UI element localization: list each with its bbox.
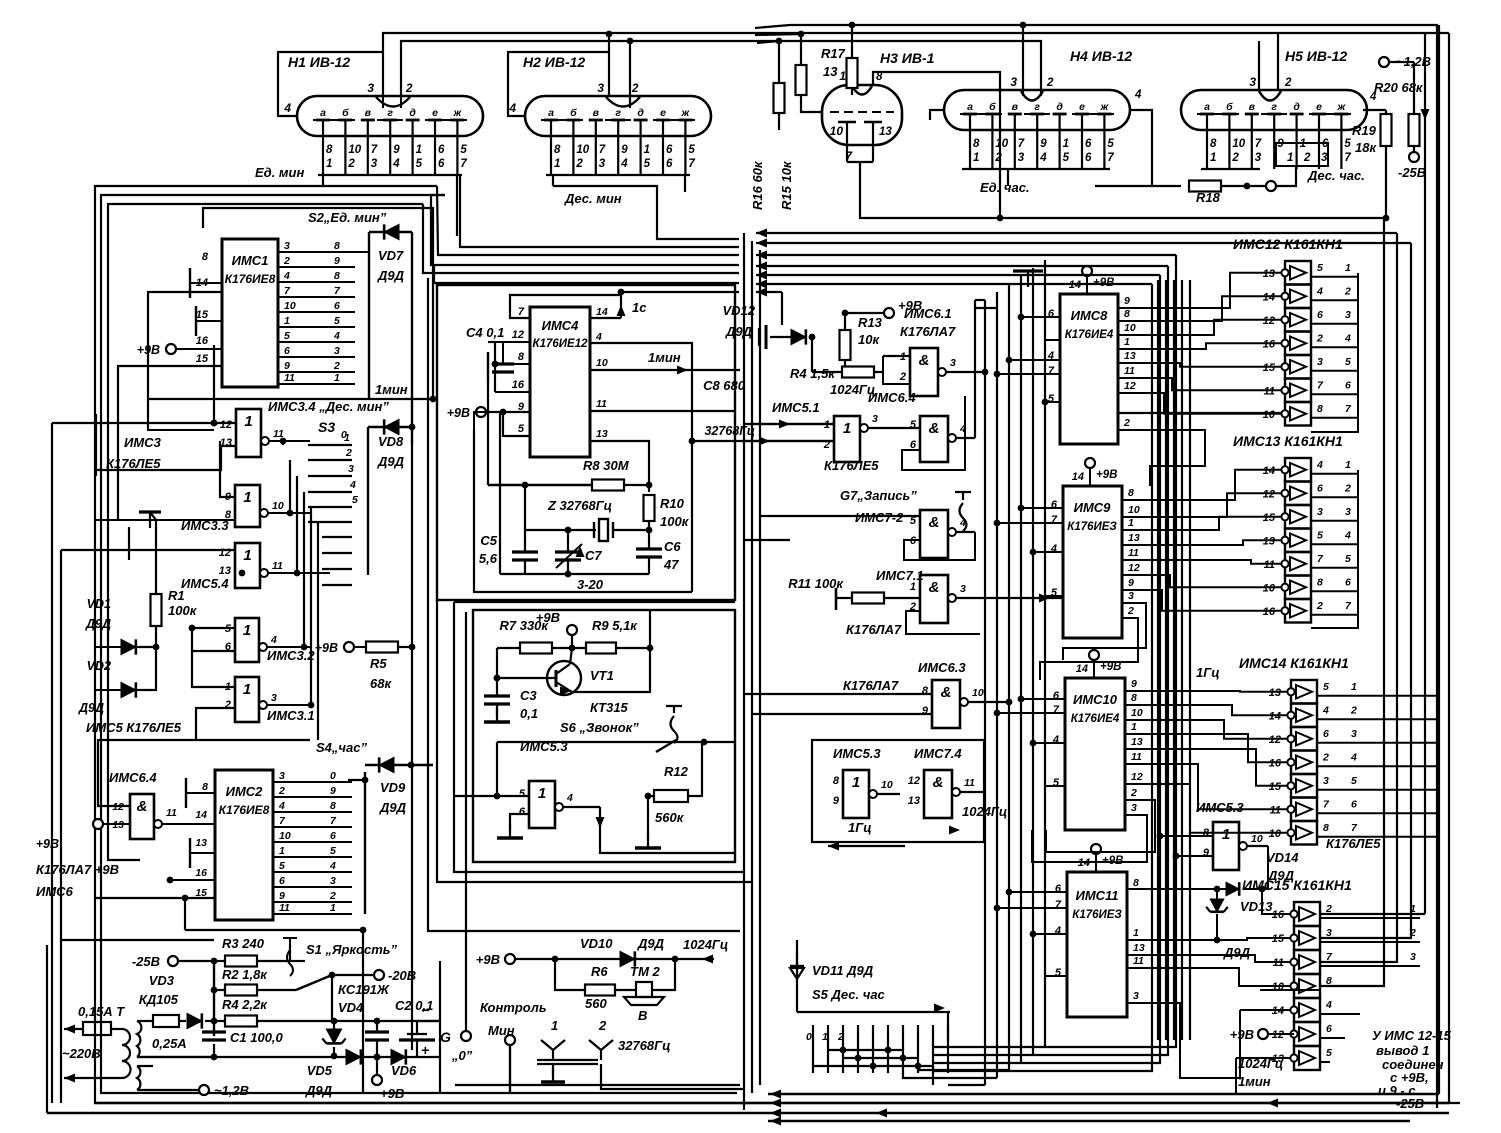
svg-text:3: 3 <box>599 158 606 170</box>
wire IMS9 pin3 pin2 <box>1063 603 1146 660</box>
bus top line from H3 <box>860 180 1384 986</box>
wire IMS8 pin2 <box>1118 430 1205 486</box>
wire H2 pin3 up <box>608 34 610 97</box>
svg-text:3: 3 <box>1133 990 1139 1002</box>
wire right frame bottom <box>1448 33 1450 1103</box>
svg-text:G7„Запись”: G7„Запись” <box>840 488 917 503</box>
svg-text:8: 8 <box>554 144 561 156</box>
svg-text:4: 4 <box>1316 285 1323 297</box>
wire R16 junction <box>757 41 779 43</box>
tube Н4 ИВ-12 <box>944 90 1130 130</box>
tube Н5 ИВ-12 <box>1181 90 1367 130</box>
svg-text:5: 5 <box>334 315 340 327</box>
svg-text:б: б <box>570 107 577 119</box>
svg-text:6: 6 <box>1345 576 1351 588</box>
wires IMS10 to IMS14 <box>1125 690 1287 693</box>
svg-text:R10: R10 <box>660 496 685 511</box>
svg-text:4: 4 <box>329 860 336 872</box>
wire pin5 down <box>474 412 503 430</box>
svg-text:5: 5 <box>1053 777 1060 789</box>
diode VD6 <box>391 1049 406 1064</box>
wire ps box <box>439 961 441 1093</box>
capacitor C4 <box>487 352 489 382</box>
node power rail <box>213 961 215 1036</box>
svg-text:г: г <box>615 107 621 119</box>
wire mid bundle bottoms <box>948 1084 985 1086</box>
svg-text:6: 6 <box>1055 883 1062 895</box>
wire H5 bracket <box>1201 168 1260 170</box>
svg-text:в: в <box>365 107 372 119</box>
wire mid box outer <box>437 285 735 600</box>
svg-text:-25В: -25В <box>132 954 160 969</box>
svg-text:2: 2 <box>575 158 583 170</box>
svg-text:а: а <box>967 101 973 113</box>
svg-text:R13: R13 <box>858 315 883 330</box>
svg-text:7: 7 <box>1107 152 1114 164</box>
svg-text:S6 „Звонок”: S6 „Звонок” <box>560 720 639 735</box>
S3 ladder verticals <box>282 441 284 445</box>
svg-text:3: 3 <box>872 413 878 425</box>
svg-text:8: 8 <box>1124 308 1130 320</box>
svg-text:7: 7 <box>1018 138 1025 150</box>
svg-text:1: 1 <box>822 1031 828 1043</box>
svg-text:9: 9 <box>833 795 840 807</box>
svg-text:1: 1 <box>1210 152 1216 164</box>
wires IMS8 to IMS12 <box>1118 273 1281 308</box>
svg-text:ж: ж <box>1337 101 1347 113</box>
svg-text:VD9: VD9 <box>380 780 406 795</box>
diode VD8 <box>367 427 369 575</box>
svg-text:1: 1 <box>284 315 290 327</box>
svg-text:-20В: -20В <box>388 968 416 983</box>
svg-text:10: 10 <box>830 124 844 138</box>
svg-text:3: 3 <box>1255 152 1262 164</box>
svg-text:R8 30М: R8 30М <box>583 458 630 473</box>
svg-text:7: 7 <box>688 158 695 170</box>
svg-text:2: 2 <box>1303 152 1311 164</box>
svg-text:К176ЛА7: К176ЛА7 <box>843 678 899 693</box>
diode VD11 <box>790 968 804 979</box>
svg-text:R18: R18 <box>1196 190 1221 205</box>
svg-text:8: 8 <box>334 240 340 252</box>
svg-text:11: 11 <box>1124 365 1135 377</box>
resistor R13 <box>884 308 894 318</box>
svg-text:5: 5 <box>330 845 336 857</box>
svg-text:10: 10 <box>995 138 1008 150</box>
svg-text:6: 6 <box>1323 728 1329 740</box>
svg-text:ИМС3.4 „Дес. мин”: ИМС3.4 „Дес. мин” <box>268 399 389 414</box>
svg-text:ИМС13 К161КН1: ИМС13 К161КН1 <box>1233 433 1343 449</box>
svg-text:0: 0 <box>806 1031 812 1043</box>
svg-text:1Гц: 1Гц <box>1196 665 1220 680</box>
svg-text:6: 6 <box>1051 499 1058 511</box>
svg-text:5: 5 <box>1345 553 1351 565</box>
svg-text:1: 1 <box>243 681 251 698</box>
svg-text:5: 5 <box>1055 967 1062 979</box>
svg-text:ж: ж <box>453 107 463 119</box>
svg-text:Ед. мин: Ед. мин <box>255 165 304 180</box>
svg-text:1: 1 <box>644 144 650 156</box>
svg-text:8: 8 <box>202 781 208 793</box>
svg-text:4: 4 <box>959 517 966 529</box>
svg-text:5: 5 <box>1345 356 1351 368</box>
svg-text:ИМС3: ИМС3 <box>124 435 162 450</box>
diode VD5 <box>346 1049 361 1064</box>
svg-text:ИМС5 К176ЛЕ5: ИМС5 К176ЛЕ5 <box>86 720 182 735</box>
ic IMS10 K176IE4 <box>1065 678 1125 830</box>
diode VD7 <box>368 232 370 399</box>
svg-text:7: 7 <box>1255 138 1262 150</box>
svg-text:2: 2 <box>347 158 355 170</box>
svg-text:VD3: VD3 <box>149 973 175 988</box>
svg-text:7: 7 <box>518 306 525 318</box>
svg-text:б: б <box>342 107 349 119</box>
svg-text:7: 7 <box>1053 704 1060 716</box>
wire top bus B <box>401 41 1041 98</box>
svg-text:2: 2 <box>1344 285 1351 297</box>
svg-text:е: е <box>432 107 438 119</box>
svg-text:5: 5 <box>1326 1047 1332 1059</box>
svg-text:К176ИЕ4: К176ИЕ4 <box>1065 329 1114 341</box>
svg-text:8: 8 <box>922 685 929 697</box>
svg-text:5: 5 <box>1317 262 1323 274</box>
svg-text:вывод 1: вывод 1 <box>1376 1043 1429 1058</box>
svg-text:7: 7 <box>371 144 378 156</box>
svg-text:2: 2 <box>631 83 639 95</box>
terminal +9V IMS15 <box>1258 1029 1268 1039</box>
terminal -20V <box>329 972 336 979</box>
svg-text:7: 7 <box>1055 899 1062 911</box>
svg-text:+9В: +9В <box>137 343 160 357</box>
svg-text:9: 9 <box>1203 847 1210 859</box>
wire left long vert 2 <box>60 550 62 940</box>
svg-text:К176ЛА7: К176ЛА7 <box>900 324 956 339</box>
svg-text:68к: 68к <box>370 676 392 691</box>
wire IMS1 pin14 <box>148 292 222 430</box>
svg-text:ТМ 2: ТМ 2 <box>630 964 661 979</box>
wire right edge arrow <box>1424 33 1426 914</box>
svg-text:R19: R19 <box>1352 123 1377 138</box>
svg-text:R15 10к: R15 10к <box>779 160 794 210</box>
svg-text:16: 16 <box>196 335 209 347</box>
svg-text:14: 14 <box>195 809 207 821</box>
svg-text:С4 0,1: С4 0,1 <box>466 325 504 340</box>
svg-text:3: 3 <box>1323 775 1329 787</box>
svg-text:S4„час”: S4„час” <box>316 740 367 755</box>
terminal -25V right <box>1409 152 1419 162</box>
svg-text:4: 4 <box>1134 89 1142 101</box>
svg-text:8: 8 <box>833 775 840 787</box>
svg-text:2: 2 <box>899 371 906 383</box>
tube H3 cathode bars <box>838 121 856 124</box>
wire pin12 to R8 <box>487 382 489 485</box>
svg-text:8: 8 <box>1210 138 1217 150</box>
svg-text:16: 16 <box>195 867 207 879</box>
terminal +9V IMS1 <box>166 344 176 354</box>
svg-text:2: 2 <box>1322 751 1329 763</box>
svg-text:Д9Д: Д9Д <box>379 800 407 815</box>
wire 1439 bottom <box>1438 25 1440 1094</box>
svg-text:Д9Д: Д9Д <box>305 1083 333 1098</box>
svg-text:4: 4 <box>1322 704 1329 716</box>
svg-text:&: & <box>941 684 952 701</box>
svg-text:1: 1 <box>279 845 285 857</box>
svg-text:+9В: +9В <box>1096 469 1117 481</box>
wire H4 pin bracket <box>962 168 1110 170</box>
svg-text:&: & <box>929 514 940 531</box>
transformer secondary 2 <box>137 1066 140 1090</box>
wire H1 pin bracket <box>318 174 462 176</box>
svg-text:R2 1,8к: R2 1,8к <box>222 967 268 982</box>
svg-text:10: 10 <box>279 830 291 842</box>
svg-text:ИМС7-2: ИМС7-2 <box>855 510 904 525</box>
svg-text:5: 5 <box>519 788 526 800</box>
gate IMS3.4 <box>236 409 261 457</box>
svg-text:4: 4 <box>278 800 285 812</box>
svg-text:1: 1 <box>852 774 860 791</box>
svg-text:S2„Ед. мин”: S2„Ед. мин” <box>308 210 387 225</box>
svg-text:1: 1 <box>910 581 916 593</box>
svg-text:12: 12 <box>1131 771 1143 783</box>
svg-text:1: 1 <box>554 158 560 170</box>
wire H1 label box <box>278 52 383 116</box>
wire +9V line <box>567 625 577 635</box>
svg-text:КД105: КД105 <box>139 992 179 1007</box>
wires IMS10 left stubs <box>1021 698 1065 700</box>
svg-text:3: 3 <box>1317 506 1323 518</box>
svg-text:ИМС6.4: ИМС6.4 <box>868 390 916 405</box>
svg-text:2: 2 <box>345 447 352 459</box>
wire mid border B <box>454 602 744 872</box>
svg-text:ИМС5.3: ИМС5.3 <box>1196 800 1244 815</box>
wire bell top <box>497 741 704 743</box>
svg-text:6: 6 <box>666 144 673 156</box>
svg-text:1: 1 <box>1124 336 1130 348</box>
ic IMS1 K176IE8 <box>222 239 278 387</box>
svg-text:&: & <box>929 579 940 596</box>
svg-text:13: 13 <box>596 428 608 440</box>
wire H4 pin4 right <box>1130 110 1152 186</box>
contact bar <box>537 1059 598 1061</box>
svg-text:1: 1 <box>973 152 979 164</box>
svg-text:12: 12 <box>1124 380 1136 392</box>
svg-text:Д9Д: Д9Д <box>725 324 753 339</box>
wire misc vert mid-right <box>1157 280 1159 1040</box>
svg-text:5,6: 5,6 <box>479 551 498 566</box>
svg-text:1: 1 <box>839 69 846 83</box>
svg-text:13: 13 <box>1128 532 1140 544</box>
svg-text:5: 5 <box>518 423 525 435</box>
svg-text:д: д <box>409 107 416 119</box>
svg-text:ИМС5.4: ИМС5.4 <box>181 576 229 591</box>
svg-text:1: 1 <box>416 144 422 156</box>
resistor R5 <box>344 642 354 652</box>
S3 stubs <box>322 536 352 538</box>
terminal ~1,2V top <box>1379 57 1389 67</box>
svg-text:2: 2 <box>994 152 1002 164</box>
svg-text:9: 9 <box>1040 138 1047 150</box>
svg-text:С7: С7 <box>585 548 602 563</box>
svg-text:4: 4 <box>283 101 291 115</box>
wire mid vertical bundle <box>984 300 986 1085</box>
svg-text:5: 5 <box>910 419 917 431</box>
gate IMS3.2 <box>235 618 259 662</box>
svg-text:+9В: +9В <box>476 952 500 967</box>
tbar mid <box>1027 271 1029 287</box>
svg-text:ИМС6.4: ИМС6.4 <box>109 770 157 785</box>
svg-text:3: 3 <box>1010 75 1017 89</box>
terminal -25V left <box>168 956 178 966</box>
svg-text:ИМС11: ИМС11 <box>1075 888 1118 903</box>
svg-text:14: 14 <box>596 306 608 318</box>
svg-text:д: д <box>1293 101 1300 113</box>
svg-text:13: 13 <box>195 837 207 849</box>
svg-text:8: 8 <box>1317 576 1323 588</box>
svg-text:а: а <box>1204 101 1210 113</box>
svg-text:11: 11 <box>1128 547 1139 559</box>
svg-text:1: 1 <box>243 547 251 564</box>
svg-text:4: 4 <box>349 479 356 491</box>
svg-text:3: 3 <box>1018 152 1025 164</box>
svg-text:11: 11 <box>964 777 975 789</box>
svg-text:3: 3 <box>371 158 378 170</box>
wire top bus C <box>755 25 1437 1108</box>
svg-text:1: 1 <box>344 432 350 444</box>
svg-text:2: 2 <box>283 255 290 267</box>
wire bus corner 1 <box>460 175 739 247</box>
svg-text:VT1: VT1 <box>590 668 614 683</box>
svg-text:+9В: +9В <box>380 1086 404 1101</box>
svg-text:1Гц: 1Гц <box>848 820 872 835</box>
wire IMS10 pin2 pin3 <box>1046 800 1155 852</box>
svg-text:К176ЛА7 +9В: К176ЛА7 +9В <box>36 862 119 877</box>
svg-text:9: 9 <box>279 890 285 902</box>
svg-text:4: 4 <box>620 158 628 170</box>
svg-text:11: 11 <box>166 807 177 819</box>
svg-text:Ед. час.: Ед. час. <box>980 180 1030 195</box>
svg-text:КС191Ж: КС191Ж <box>338 982 390 997</box>
svg-text:4: 4 <box>508 101 516 115</box>
svg-text:К176ЛЕ5: К176ЛЕ5 <box>106 456 161 471</box>
svg-text:10: 10 <box>1251 833 1263 845</box>
svg-text:4: 4 <box>1052 734 1059 746</box>
svg-text:4: 4 <box>270 634 277 646</box>
svg-text:&: & <box>919 352 930 369</box>
svg-text:1: 1 <box>326 158 332 170</box>
svg-text:С3: С3 <box>520 688 537 703</box>
svg-text:VD11 Д9Д: VD11 Д9Д <box>812 963 874 978</box>
svg-text:6: 6 <box>1085 138 1092 150</box>
svg-text:ИМС8: ИМС8 <box>1071 308 1109 323</box>
wire mid border D <box>428 278 740 931</box>
ic IMS4 K176IE12 <box>530 307 590 457</box>
svg-text:10: 10 <box>881 779 893 791</box>
svg-text:К176ИЕЗ: К176ИЕЗ <box>1072 909 1122 921</box>
svg-text:9: 9 <box>1124 295 1130 307</box>
diode VD13 <box>1214 886 1221 893</box>
svg-text:9: 9 <box>334 255 340 267</box>
svg-text:2: 2 <box>1344 482 1351 494</box>
svg-text:Д9Д: Д9Д <box>1267 868 1295 883</box>
svg-text:1: 1 <box>1133 927 1139 939</box>
svg-text:VD12: VD12 <box>722 303 755 318</box>
svg-text:R6: R6 <box>591 964 608 979</box>
svg-text:8: 8 <box>1317 403 1323 415</box>
svg-text:Д9Д: Д9Д <box>377 268 405 283</box>
terminal +9V bell <box>505 954 515 964</box>
svg-text:10: 10 <box>1232 138 1245 150</box>
svg-text:3: 3 <box>1345 309 1351 321</box>
svg-text:К176ЛА7: К176ЛА7 <box>846 622 902 637</box>
svg-text:Н5 ИВ-12: Н5 ИВ-12 <box>1285 48 1347 64</box>
transformer secondary 1 <box>137 1021 141 1057</box>
bus bottom mid <box>455 1084 740 1086</box>
wires IMS11 left stubs <box>1009 891 1067 893</box>
svg-text:г: г <box>1034 101 1040 113</box>
svg-text:5: 5 <box>1317 529 1323 541</box>
svg-text:12: 12 <box>512 329 524 341</box>
svg-text:R17: R17 <box>821 46 846 61</box>
svg-text:VD7: VD7 <box>378 248 404 263</box>
svg-text:ИМС14 К161КН1: ИМС14 К161КН1 <box>1239 655 1349 671</box>
svg-text:5: 5 <box>1051 587 1058 599</box>
capacitor C5/C7 stems <box>524 560 526 574</box>
svg-text:100к: 100к <box>660 514 690 529</box>
resistor R18 <box>1095 185 1181 187</box>
svg-text:&: & <box>933 774 944 791</box>
svg-text:ИМС5.3: ИМС5.3 <box>833 746 881 761</box>
svg-text:1мин: 1мин <box>648 350 681 365</box>
wire IMS2 pin15 <box>95 897 215 899</box>
svg-text:5: 5 <box>1323 681 1329 693</box>
svg-text:1: 1 <box>843 420 851 437</box>
wire ims1 outer box <box>203 208 433 399</box>
svg-text:ж: ж <box>681 107 691 119</box>
svg-text:4: 4 <box>595 331 602 343</box>
svg-text:6: 6 <box>519 806 526 818</box>
svg-text:10: 10 <box>576 144 589 156</box>
svg-text:0,15А Т: 0,15А Т <box>78 1004 125 1019</box>
svg-text:3: 3 <box>271 692 277 704</box>
svg-text:3: 3 <box>1321 152 1328 164</box>
svg-text:ИМС5.3: ИМС5.3 <box>520 739 568 754</box>
svg-text:Д9Д: Д9Д <box>377 454 405 469</box>
svg-text:„0”: „0” <box>451 1048 473 1063</box>
svg-text:С6: С6 <box>664 539 681 554</box>
svg-text:+9В: +9В <box>36 837 59 851</box>
svg-text:+: + <box>421 1042 429 1058</box>
wire right vertical bus <box>1320 233 1397 962</box>
svg-text:3: 3 <box>1131 802 1137 814</box>
gate IMS3.3 <box>235 485 260 527</box>
svg-text:4: 4 <box>1325 999 1332 1011</box>
svg-text:VD13: VD13 <box>1240 899 1273 914</box>
svg-text:Д9Д: Д9Д <box>637 936 665 951</box>
wire left frame outer <box>95 186 1460 1103</box>
wires IMS11 to IMS15 <box>1127 938 1290 940</box>
svg-text:6: 6 <box>1345 379 1351 391</box>
svg-text:С8 680: С8 680 <box>703 378 746 393</box>
svg-text:6: 6 <box>1351 798 1357 810</box>
svg-text:10: 10 <box>284 300 296 312</box>
svg-text:4: 4 <box>1316 459 1323 471</box>
svg-text:7: 7 <box>460 158 467 170</box>
svg-text:Н3 ИВ-1: Н3 ИВ-1 <box>880 50 935 66</box>
svg-text:7: 7 <box>599 144 606 156</box>
svg-text:3-20: 3-20 <box>577 577 604 592</box>
svg-text:4: 4 <box>1344 332 1351 344</box>
svg-text:6: 6 <box>1085 152 1092 164</box>
